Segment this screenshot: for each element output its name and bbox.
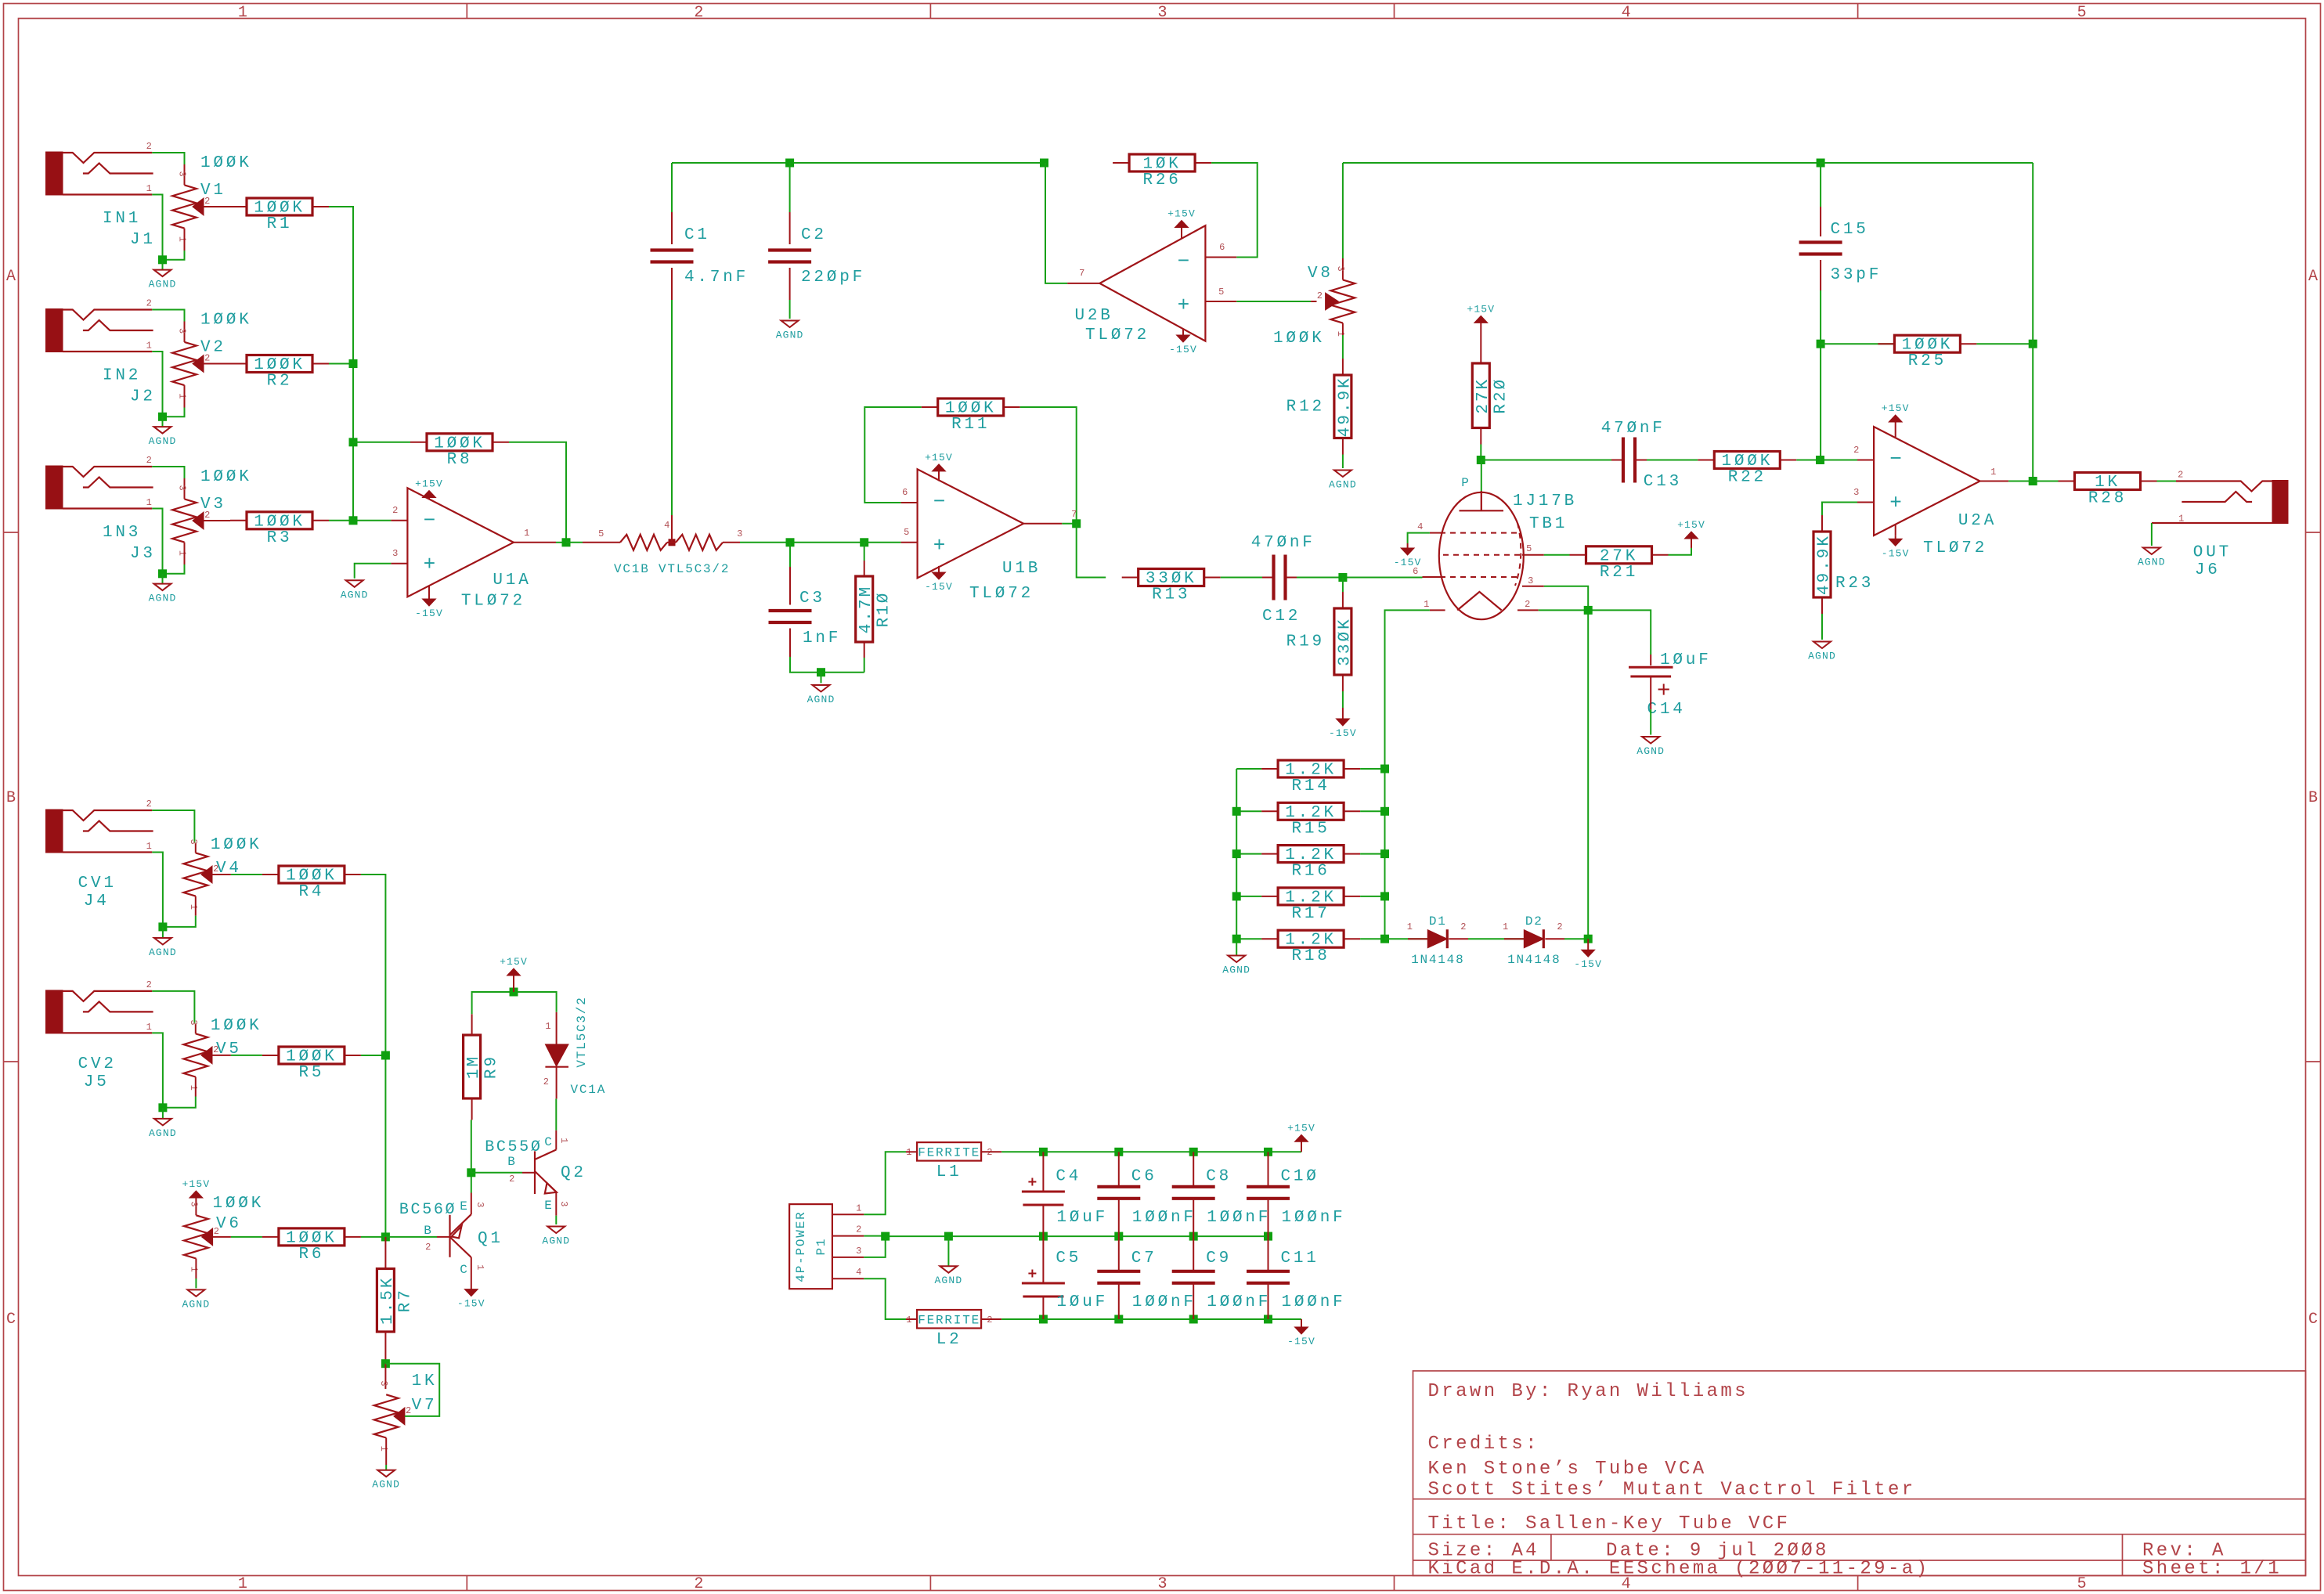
svg-text:B: B [2308, 789, 2318, 807]
svg-text:C3: C3 [799, 590, 825, 608]
wire tube pin1 rail to ladder [1385, 610, 1430, 939]
wire [184, 322, 186, 342]
power -15V U2B [1169, 335, 1197, 355]
svg-text:1ØØnF: 1ØØnF [1282, 1293, 1346, 1311]
svg-text:5: 5 [1218, 287, 1225, 298]
wire VC1B to U1B pin5 [740, 542, 901, 543]
wire [1286, 577, 1297, 579]
svg-text:AGND: AGND [149, 593, 177, 604]
svg-text:Drawn By: Ryan Williams: Drawn By: Ryan Williams [1428, 1381, 1748, 1402]
wire P1 pin4 to L2 [864, 1278, 906, 1319]
svg-text:D2: D2 [1525, 914, 1543, 929]
svg-text:1ØØnF: 1ØØnF [1132, 1293, 1196, 1311]
svg-text:1: 1 [188, 904, 199, 911]
svg-text:Ken Stone’s Tube VCA: Ken Stone’s Tube VCA [1428, 1459, 1707, 1480]
transistor Q2 BC550 (NPN) [485, 1131, 586, 1216]
resistor R16 [1261, 846, 1360, 881]
wire [1895, 525, 1896, 536]
svg-text:R12: R12 [1286, 398, 1325, 416]
wire D2 to rail [1564, 938, 1588, 939]
svg-text:R19: R19 [1286, 633, 1325, 651]
wire R16 right [1360, 853, 1384, 855]
wire R1 to summing bus [329, 207, 353, 521]
junction [817, 668, 825, 676]
svg-text:3: 3 [475, 1202, 485, 1208]
wire U2B out to feedback [1045, 163, 1067, 283]
svg-text:1: 1 [238, 1575, 247, 1593]
power +15V V6 [182, 1178, 210, 1198]
svg-text:1: 1 [188, 1267, 199, 1273]
wire [195, 1024, 197, 1034]
capacitor C5 (polarized) [1022, 1270, 1065, 1297]
svg-text:2: 2 [146, 141, 153, 152]
wire to AGND [162, 574, 164, 584]
svg-text:AGND: AGND [341, 589, 369, 600]
svg-text:1: 1 [146, 183, 153, 194]
svg-text:Sheet: 1/1: Sheet: 1/1 [2142, 1559, 2282, 1580]
power -15V ladder [1574, 939, 1602, 970]
svg-text:1ØuF: 1ØuF [1056, 1293, 1108, 1311]
wire tube pin2 to C14 [1539, 610, 1651, 655]
junction [467, 1168, 475, 1177]
svg-text:1ØØnF: 1ØØnF [1207, 1209, 1271, 1227]
junction [1817, 340, 1825, 348]
svg-text:1M: 1M [465, 1055, 483, 1079]
svg-text:1K: 1K [412, 1372, 438, 1390]
wire [184, 478, 186, 499]
wire jack sleeve to ground node [152, 352, 162, 417]
svg-text:VC1A: VC1A [571, 1083, 607, 1097]
svg-text:E: E [460, 1199, 468, 1214]
svg-text:1ØØnF: 1ØØnF [1132, 1209, 1196, 1227]
svg-text:R5: R5 [298, 1064, 324, 1082]
wire [385, 1438, 387, 1466]
junction [1039, 1232, 1048, 1241]
resistor R6 [262, 1228, 361, 1264]
svg-text:2: 2 [2178, 470, 2184, 481]
svg-text:R28: R28 [2088, 490, 2127, 508]
ground AGND [149, 427, 177, 447]
power +15V U1A [415, 478, 443, 498]
ground AGND C14 [1637, 737, 1665, 757]
svg-text:C14: C14 [1647, 701, 1686, 719]
wire P1 pin3 up [864, 1236, 885, 1257]
svg-text:R4: R4 [298, 883, 324, 901]
resistor R9 [464, 1035, 501, 1098]
svg-text:6: 6 [1219, 242, 1225, 253]
svg-text:R18: R18 [1291, 947, 1330, 965]
junction [381, 1359, 390, 1368]
wire [204, 520, 230, 521]
wire [1268, 1152, 1269, 1187]
svg-text:U2A: U2A [1958, 512, 1997, 530]
svg-text:D1: D1 [1429, 914, 1447, 929]
svg-text:Q2: Q2 [561, 1164, 586, 1182]
svg-text:1ØØK: 1ØØK [211, 836, 262, 854]
svg-text:1ØuF: 1ØuF [1056, 1209, 1108, 1227]
power +15V R21 [1677, 519, 1705, 548]
svg-text:A: A [6, 268, 16, 286]
svg-text:+15V: +15V [500, 956, 528, 968]
wire [1342, 578, 1344, 593]
junction [158, 1103, 167, 1112]
wire +15V rail [1001, 1151, 1301, 1152]
svg-text:3: 3 [378, 1380, 389, 1387]
svg-text:5: 5 [2077, 1575, 2087, 1593]
svg-text:4: 4 [1417, 521, 1424, 532]
wire [1268, 1236, 1269, 1271]
resistor R28 [2059, 473, 2157, 508]
wire [1820, 207, 1821, 236]
wire R6 to Q1 base [361, 1236, 437, 1238]
svg-text:5: 5 [904, 527, 910, 538]
wire [1408, 938, 1427, 939]
wire [1342, 258, 1344, 279]
capacitor C10 [1247, 1187, 1290, 1199]
wire V6 wiper to R6 [231, 1236, 262, 1238]
wire R17 right [1360, 896, 1384, 897]
wire R3/bus to U1A pin2 [329, 520, 391, 521]
connector jack J2 [46, 298, 153, 352]
op-amp U2A [1874, 427, 1980, 536]
connector P1 4P-POWER [789, 1203, 864, 1289]
svg-text:C: C [460, 1263, 468, 1277]
svg-text:P: P [1461, 476, 1470, 490]
junction [1264, 1315, 1272, 1324]
svg-text:1ØØK: 1ØØK [200, 312, 252, 330]
svg-text:+15V: +15V [1167, 208, 1196, 220]
potentiometer V4 [183, 836, 262, 911]
wire [1193, 1199, 1194, 1236]
potentiometer V3 [172, 468, 252, 557]
capacitor C11 [1247, 1271, 1290, 1283]
wire R21 to +15V [1669, 548, 1692, 555]
wire [1193, 1152, 1194, 1187]
svg-text:−: − [933, 490, 946, 514]
junction [1264, 1232, 1272, 1241]
wire U2A out to R28 [2008, 481, 2058, 482]
wire [1193, 1283, 1194, 1319]
wire top feedback net [672, 162, 1045, 164]
resistor R26 [1113, 154, 1211, 189]
svg-text:C6: C6 [1131, 1168, 1157, 1186]
svg-text:-15V: -15V [1574, 958, 1602, 970]
ground AGND Q2 [542, 1227, 570, 1247]
svg-text:1ØØK: 1ØØK [200, 468, 252, 486]
svg-text:1: 1 [177, 393, 188, 399]
svg-text:1: 1 [524, 528, 530, 539]
svg-text:3: 3 [392, 548, 399, 559]
svg-text:47ØnF: 47ØnF [1251, 534, 1315, 552]
wire wiper to R [231, 1055, 262, 1056]
svg-text:2: 2 [1460, 921, 1467, 932]
svg-text:V2: V2 [200, 339, 226, 357]
junction [1039, 1315, 1048, 1324]
svg-text:1ØØnF: 1ØØnF [1207, 1293, 1271, 1311]
svg-text:2: 2 [856, 1224, 862, 1235]
svg-text:7: 7 [1079, 268, 1085, 279]
op-amp U2A pins and labels [1853, 445, 2008, 557]
svg-text:P1: P1 [814, 1238, 828, 1256]
wire [671, 268, 673, 300]
wire [1430, 532, 1441, 534]
wire R22 to U2A pin2 [1796, 460, 1857, 461]
ground AGND V6 [182, 1289, 210, 1310]
wire to AGND [162, 417, 164, 427]
svg-text:1ØuF: 1ØuF [1660, 651, 1712, 669]
wire V6 to AGND [195, 1278, 197, 1288]
svg-text:+15V: +15V [1677, 519, 1705, 531]
wire U1B out down to R13 [1077, 524, 1106, 578]
svg-text:2: 2 [1317, 290, 1323, 301]
svg-text:J2: J2 [130, 388, 156, 406]
wire [1522, 554, 1544, 556]
svg-text:C4: C4 [1056, 1168, 1081, 1186]
ground AGND U1A+ [341, 580, 369, 600]
svg-text:−: − [424, 509, 436, 532]
capacitor C2 [768, 251, 811, 262]
wire [1423, 576, 1441, 578]
junction [1584, 606, 1593, 615]
capacitor C3 [769, 611, 812, 622]
power -15V tube g [1394, 543, 1422, 568]
svg-text:Q1: Q1 [478, 1230, 503, 1248]
wire [1504, 938, 1524, 939]
wire U1B out [1062, 523, 1076, 525]
junction [1189, 1148, 1198, 1156]
wire jack sleeve to ground node [152, 195, 162, 260]
wire pot pin1 to ground node [163, 564, 185, 574]
ground AGND C3 [807, 685, 835, 705]
wire rail to AGND [947, 1236, 949, 1266]
wire [1449, 938, 1468, 939]
wire [1895, 427, 1896, 438]
wire to AGND [162, 1108, 164, 1119]
svg-text:3: 3 [737, 528, 743, 539]
wire Q2 emitter to AGND [555, 1216, 557, 1224]
wire [195, 843, 197, 853]
wire P1 pin1 to L1 [864, 1152, 906, 1214]
svg-text:1: 1 [146, 497, 153, 508]
svg-text:2: 2 [146, 298, 153, 309]
wire [384, 1364, 386, 1389]
svg-text:R25: R25 [1908, 352, 1947, 370]
svg-text:1: 1 [1407, 921, 1413, 932]
wire bus to R8 [353, 442, 410, 443]
svg-text:2: 2 [146, 979, 153, 990]
svg-text:AGND: AGND [149, 435, 177, 447]
wire [789, 268, 791, 300]
wire [1042, 1152, 1044, 1192]
svg-text:+: + [424, 553, 436, 576]
resistor R15 [1261, 802, 1360, 838]
wire to AGND [821, 673, 822, 683]
svg-text:-15V: -15V [1169, 344, 1197, 355]
capacitor C15 [1799, 243, 1842, 254]
svg-text:J6: J6 [2195, 561, 2221, 579]
ground AGND R23 [1808, 642, 1836, 662]
wire Q2 collector to VC1A [555, 1098, 557, 1130]
svg-text:Title: Sallen-Key Tube VCF: Title: Sallen-Key Tube VCF [1428, 1513, 1791, 1534]
svg-text:33ØK: 33ØK [1336, 617, 1354, 665]
svg-text:3: 3 [177, 171, 188, 177]
svg-text:2: 2 [1853, 445, 1860, 456]
capacitor C6 [1097, 1187, 1140, 1199]
inductor ferrite bead L1 [906, 1142, 993, 1181]
svg-text:R1: R1 [267, 215, 293, 233]
svg-text:AGND: AGND [1808, 651, 1836, 662]
wire tube plate [1481, 460, 1482, 493]
capacitor C9 [1172, 1271, 1215, 1283]
svg-text:C1Ø: C1Ø [1281, 1168, 1319, 1186]
vactrol resistor VC1B [583, 528, 743, 576]
svg-text:C15: C15 [1831, 221, 1869, 239]
power -15V U1A [415, 594, 443, 619]
junction [158, 569, 167, 578]
junction [2029, 340, 2037, 348]
svg-text:1.5K: 1.5K [379, 1276, 397, 1325]
wire R18 right [1360, 938, 1384, 939]
svg-text:J3: J3 [130, 545, 156, 563]
resistor R19 [1286, 592, 1355, 691]
junction [1380, 935, 1389, 943]
svg-text:+15V: +15V [415, 478, 443, 490]
svg-text:+15V: +15V [1287, 1122, 1315, 1134]
wire [906, 1318, 917, 1320]
svg-text:B: B [507, 1155, 516, 1169]
wire R8 to U1A output [509, 442, 566, 543]
wire to D1 [1385, 938, 1428, 939]
junction [1264, 1148, 1272, 1156]
junction [1338, 573, 1347, 582]
wire J3 tip to V3 [152, 467, 184, 478]
svg-text:C11: C11 [1281, 1250, 1319, 1268]
svg-text:C7: C7 [1131, 1250, 1157, 1268]
connector jack J3 [46, 455, 153, 509]
wire R4 to CV bus [361, 875, 386, 1237]
wire [184, 385, 186, 407]
svg-text:1: 1 [856, 1203, 862, 1214]
svg-text:VTL5C3/2: VTL5C3/2 [575, 996, 589, 1067]
svg-text:C: C [6, 1311, 16, 1329]
svg-text:CV1: CV1 [78, 875, 117, 893]
resistor R17 [1261, 888, 1360, 923]
wire U2A pin3 to R23 [1822, 503, 1857, 516]
power -15V R19 [1329, 708, 1357, 739]
svg-text:R1Ø: R1Ø [875, 591, 893, 628]
wire tube pin4 to -15V [1408, 533, 1430, 543]
svg-text:AGND: AGND [1222, 965, 1250, 976]
wire [1342, 691, 1344, 708]
svg-text:J4: J4 [84, 893, 110, 911]
wire J1 tip to V1 [152, 153, 184, 164]
svg-text:TLØ72: TLØ72 [969, 585, 1034, 603]
svg-text:4: 4 [664, 520, 670, 531]
svg-text:R11: R11 [951, 416, 990, 434]
svg-text:2: 2 [1557, 921, 1563, 932]
svg-text:U1B: U1B [1002, 560, 1041, 578]
junction [1232, 935, 1241, 943]
svg-text:1: 1 [378, 1446, 389, 1452]
svg-text:33pF: 33pF [1831, 266, 1882, 284]
wire [1821, 614, 1823, 640]
svg-text:−: − [1889, 448, 1902, 471]
svg-text:5: 5 [598, 528, 604, 539]
wire U1A pin3 to AGND [355, 564, 392, 579]
svg-text:R7: R7 [396, 1288, 414, 1312]
wire [1820, 260, 1821, 290]
op-amp U2B [1099, 225, 1205, 341]
wire C2 to AGND [789, 300, 791, 319]
resistor R7 [377, 1269, 414, 1333]
power +15V U2A [1882, 402, 1910, 427]
diode D1 [1411, 914, 1464, 967]
svg-text:47ØnF: 47ØnF [1601, 420, 1665, 438]
wire C15 to R25/U2A node [1820, 290, 1821, 460]
svg-text:J5: J5 [84, 1073, 110, 1091]
wire to C15 [1820, 163, 1821, 207]
inductor ferrite bead L2 [906, 1310, 993, 1349]
wire [428, 586, 430, 594]
wire J5 tip to V5 [152, 991, 194, 1024]
junction [944, 1232, 953, 1241]
junction [1114, 1315, 1123, 1324]
svg-text:R2: R2 [267, 373, 293, 391]
svg-text:R21: R21 [1600, 564, 1638, 582]
ground AGND [149, 938, 177, 958]
svg-text:AGND: AGND [149, 1127, 177, 1139]
svg-text:1J17B: 1J17B [1513, 492, 1577, 510]
junction [1477, 456, 1485, 464]
svg-text:1: 1 [146, 841, 153, 852]
wire [1480, 323, 1481, 347]
wire R9 bottom rail [471, 1120, 472, 1172]
svg-text:1: 1 [1990, 467, 1997, 478]
wire [938, 566, 940, 572]
connector jack J1 [46, 141, 153, 195]
svg-text:A: A [2308, 268, 2318, 286]
junction [1232, 849, 1241, 858]
wire [938, 471, 940, 481]
svg-text:3: 3 [188, 838, 199, 845]
svg-text:+15V: +15V [925, 452, 953, 463]
svg-text:3: 3 [1335, 265, 1346, 272]
wire [428, 498, 430, 499]
wire to AGND [162, 927, 164, 938]
resistor R1 [230, 198, 329, 233]
ground AGND [149, 270, 177, 290]
svg-text:R9: R9 [483, 1055, 501, 1079]
svg-text:1: 1 [177, 236, 188, 243]
junction [1039, 1148, 1048, 1156]
wire [1522, 586, 1544, 587]
junction [158, 255, 167, 264]
svg-text:B: B [424, 1224, 432, 1238]
wire [184, 229, 186, 251]
wire R15 right [1360, 810, 1384, 812]
svg-text:+15V: +15V [182, 1178, 210, 1190]
resistor R12 [1286, 359, 1355, 455]
svg-text:-15V: -15V [1287, 1336, 1315, 1347]
wire [1262, 577, 1274, 579]
svg-text:J1: J1 [130, 231, 156, 249]
svg-text:AGND: AGND [1329, 479, 1357, 491]
power +15V rail [1287, 1122, 1315, 1152]
svg-text:+: + [933, 534, 946, 557]
wire R14 left [1236, 768, 1261, 770]
svg-text:4: 4 [1622, 4, 1631, 22]
wire to AGND [162, 260, 164, 270]
